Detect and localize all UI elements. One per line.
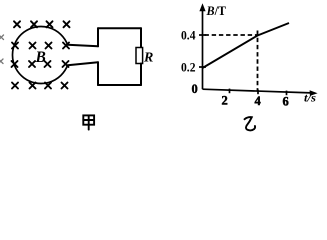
coil (circular loop) (12, 26, 67, 83)
svg-text:B/T: B/T (206, 3, 227, 18)
svg-text:4: 4 (255, 94, 262, 108)
wire: left side of outer loop (upper segment) (97, 28, 99, 46)
wire: top lead from coil to loop (68, 45, 98, 47)
svg-text:t/s: t/s (304, 91, 316, 105)
wire: bottom side of outer loop (98, 84, 141, 86)
B-t graph line (203, 23, 290, 68)
wire: top side of outer loop (98, 27, 141, 29)
svg-text:6: 6 (283, 94, 289, 108)
tick at t=2 (229, 89, 231, 94)
faint clipped x-marks at left edge (0, 35, 4, 64)
magnetic field x-marks (B into page), row 1 (14, 21, 70, 27)
svg-text:2: 2 (222, 94, 228, 108)
wire: left side of outer loop (lower segment) (97, 62, 99, 85)
dashed guide at t=4 (257, 31, 259, 92)
svg-text:0: 0 (192, 82, 198, 96)
wire: right side lower segment (140, 64, 142, 86)
dashed guide at B=0.4 (205, 34, 258, 36)
tick at B=0.4 (199, 34, 206, 36)
magnetic field x-marks, row 3 (12, 61, 69, 67)
y-axis (B) (202, 9, 204, 89)
tick at t=4 (257, 90, 259, 95)
resistor R (box) (136, 48, 143, 64)
label 乙 (right figure caption, drawn strokes) (245, 117, 256, 130)
magnetic field x-marks, row 4 (12, 83, 68, 89)
y-axis arrowhead (199, 3, 205, 11)
svg-text:R: R (143, 50, 153, 65)
svg-text:B: B (35, 49, 46, 66)
tick at t=6 (286, 91, 288, 96)
x-axis arrowhead (310, 90, 318, 96)
wire: bottom lead from coil to loop (68, 62, 98, 65)
svg-text:0.2: 0.2 (181, 61, 196, 75)
tick at B=0.2 (199, 66, 206, 68)
wire: right side upper segment (140, 28, 142, 47)
magnetic field x-marks, row 2 (12, 43, 69, 49)
svg-text:0.4: 0.4 (181, 28, 196, 42)
x-axis (t) (203, 89, 312, 93)
label 甲 (left figure caption, drawn strokes) (83, 115, 94, 129)
